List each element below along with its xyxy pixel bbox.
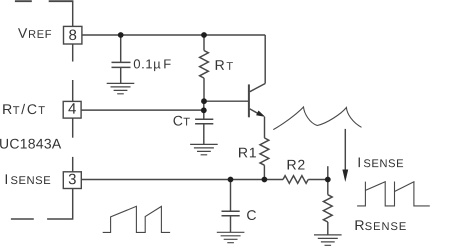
resistor R2 zigzag: [283, 176, 308, 184]
junction dot R1/R2 node: [262, 177, 268, 183]
waveform at RSENSE left edge 1: [357, 182, 365, 206]
label ISENSE pin3: [6, 174, 51, 184]
label VREF: [18, 28, 51, 38]
wire ISENSE rail pin3 to R2: [81, 179, 283, 181]
ISENSE arrowhead: [342, 170, 348, 183]
IC outline bottom dash: [11, 218, 34, 220]
label R1: [239, 148, 256, 158]
resistor RSENSE top lead: [327, 180, 329, 195]
wire pin4 to node: [81, 109, 204, 111]
ISENSE arrow shaft: [344, 129, 346, 171]
waveform at pin3: [103, 206, 170, 232]
torn-wire squiggle: [273, 107, 361, 130]
transistor Q1 emitter arrowhead: [256, 111, 265, 117]
capacitor 0.1uF bottom lead: [120, 67, 122, 83]
label R2: [288, 160, 305, 170]
ground under CT: [190, 144, 218, 154]
label C: [247, 210, 256, 220]
junction dot VREF/0.1uF: [118, 32, 124, 38]
pin number 4: [68, 103, 76, 113]
resistor RT top lead: [203, 35, 205, 51]
label CT: [174, 116, 190, 126]
pin number 8: [69, 30, 76, 41]
ground under 0.1uF: [107, 83, 135, 93]
IC outline top corner dash: [49, 0, 74, 2]
waveform at RSENSE ramp 1: [365, 182, 394, 206]
transistor Q1 base bar: [248, 84, 250, 117]
capacitor 0.1uF plates: [112, 62, 131, 67]
label RSENSE: [356, 220, 406, 230]
capacitor CT bottom lead: [203, 124, 205, 145]
resistor RT zigzag: [200, 51, 209, 79]
transistor Q1 collector diagonal: [250, 84, 265, 92]
junction dot pin4/CT: [201, 107, 207, 113]
resistor R1 zigzag: [260, 138, 269, 165]
label RT: [216, 60, 233, 70]
IC right-edge dash pin4-pin3 b: [72, 157, 74, 172]
resistor RT bottom lead: [203, 78, 205, 101]
pin 8 box: [64, 26, 82, 44]
capacitor 0.1uF top lead: [120, 35, 122, 62]
label RT/CT: [3, 104, 45, 114]
IC outline top corner vertical: [72, 1, 74, 26]
ground under C: [217, 232, 245, 242]
wire collector drop: [264, 35, 266, 84]
junction dot VREF/RT: [201, 32, 207, 38]
ground under RSENSE: [314, 235, 342, 245]
junction dot R2/RSENSE node: [325, 177, 331, 183]
capacitor C bottom lead: [230, 216, 232, 233]
junction dot RT/base: [201, 98, 207, 104]
label ISENSE arrow: [359, 158, 404, 168]
wire torn stub above RSENSE node: [327, 166, 329, 179]
pin number 3: [69, 174, 76, 185]
resistor RSENSE bottom lead: [327, 222, 329, 235]
label UC1843A: [0, 139, 61, 149]
wire R2 to RSENSE node: [308, 179, 328, 181]
capacitor C top lead: [230, 180, 232, 212]
wire base from RT/CT node: [204, 100, 248, 102]
wire RT/CT node vertical: [203, 101, 205, 119]
waveform at RSENSE ramp 2: [395, 182, 430, 206]
resistor R1 bottom lead: [263, 165, 265, 179]
label 0.1uF: [134, 59, 171, 71]
IC right-edge dash pin8-pin4 a: [72, 44, 74, 62]
wire VREF rail pin8 to collector corner: [82, 34, 265, 36]
capacitor C plates: [222, 211, 240, 216]
junction dot C node: [228, 177, 234, 183]
resistor RSENSE zigzag: [323, 195, 332, 222]
IC right-edge dash pin4-pin3 a: [72, 118, 74, 138]
IC right-edge dash pin8-pin4 b: [72, 80, 74, 101]
IC outline top dash: [15, 0, 32, 2]
pin 3 box: [63, 172, 81, 189]
capacitor CT plates: [195, 119, 213, 124]
wire emitter to R1: [264, 117, 266, 138]
transistor Q1 emitter diagonal: [250, 109, 259, 114]
IC outline bottom corner dash: [47, 189, 73, 220]
pin 4 box: [63, 101, 81, 118]
